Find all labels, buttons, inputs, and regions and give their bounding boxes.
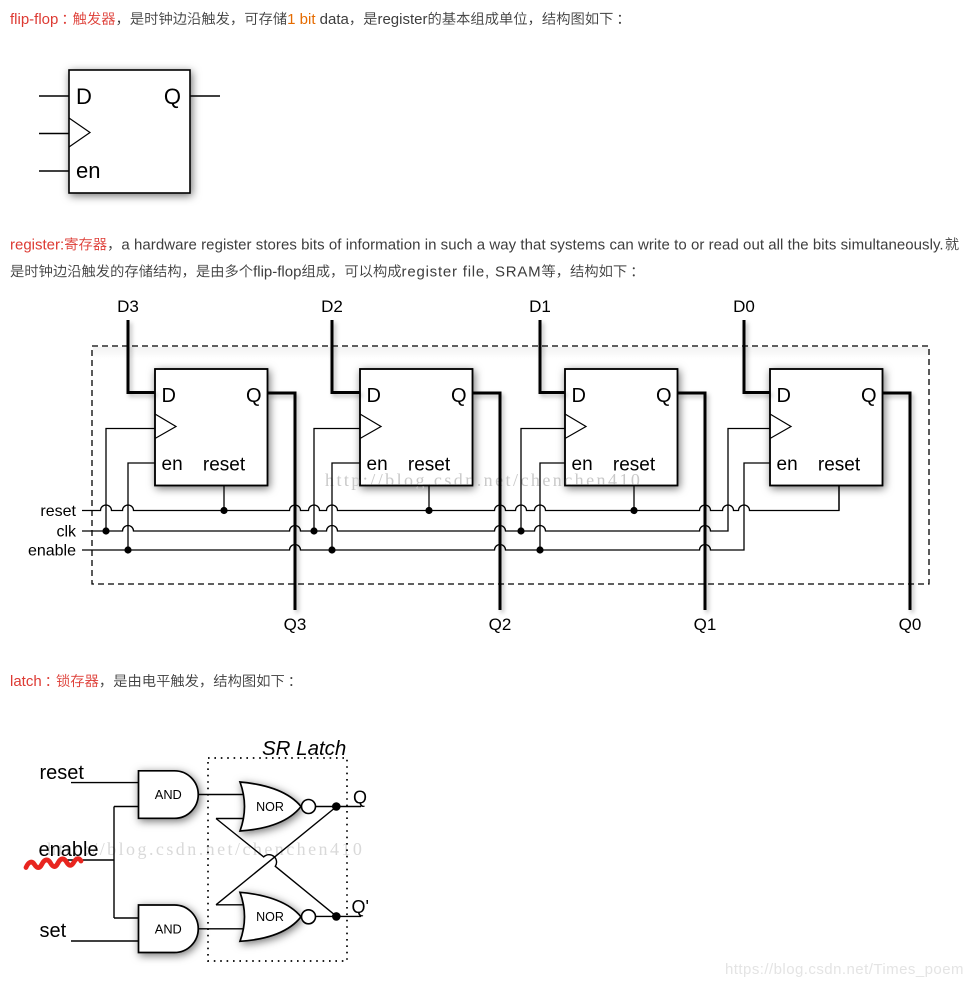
svg-text:D: D <box>572 385 586 407</box>
svg-text:register:: register: <box>10 236 64 253</box>
svg-text:Q3: Q3 <box>284 615 307 634</box>
svg-text:Q: Q <box>353 788 367 808</box>
svg-text:Q0: Q0 <box>899 615 922 634</box>
svg-text:flip-flop: flip-flop <box>10 11 58 28</box>
svg-text:reset: reset <box>613 455 656 476</box>
svg-text:en: en <box>367 454 388 475</box>
svg-text:1 bit: 1 bit <box>287 11 316 28</box>
svg-text:Q: Q <box>861 385 877 407</box>
svg-text:set: set <box>40 920 67 942</box>
svg-text:flip-flop: flip-flop <box>253 263 301 280</box>
svg-text:en: en <box>572 454 593 475</box>
svg-text:reset: reset <box>40 762 85 784</box>
svg-text:clk: clk <box>56 524 77 541</box>
svg-text:reset: reset <box>818 455 861 476</box>
svg-text:latch: latch <box>10 673 42 690</box>
svg-text:D: D <box>367 385 381 407</box>
svg-text:Q1: Q1 <box>694 615 717 634</box>
svg-text:a hardware register stores bit: a hardware register stores bits of infor… <box>121 236 943 253</box>
svg-text:https://blog.csdn.net/Times_po: https://blog.csdn.net/Times_poem <box>725 961 964 978</box>
svg-text:Q: Q <box>656 385 672 407</box>
svg-text:Q2: Q2 <box>489 615 512 634</box>
svg-text:NOR: NOR <box>256 910 284 924</box>
svg-text:register: register <box>377 11 427 28</box>
svg-text:D: D <box>777 385 791 407</box>
svg-text:data: data <box>316 11 350 28</box>
svg-text:D1: D1 <box>529 297 551 316</box>
svg-text:Q': Q' <box>352 897 369 917</box>
svg-text:Q: Q <box>246 385 262 407</box>
svg-text:AND: AND <box>155 921 182 936</box>
svg-text:reset: reset <box>203 455 246 476</box>
svg-text:en: en <box>162 454 183 475</box>
svg-text:D: D <box>162 385 176 407</box>
svg-text:enable: enable <box>28 543 76 560</box>
svg-text:reset: reset <box>408 455 451 476</box>
svg-text:AND: AND <box>155 787 182 802</box>
svg-text:D: D <box>76 84 92 109</box>
svg-text:reset: reset <box>40 503 76 520</box>
svg-text:D0: D0 <box>733 297 755 316</box>
svg-text:Q: Q <box>451 385 467 407</box>
svg-text:D2: D2 <box>321 297 343 316</box>
svg-text:Q: Q <box>164 84 181 109</box>
svg-text:D3: D3 <box>117 297 139 316</box>
svg-text:en: en <box>777 454 798 475</box>
svg-text:SR Latch: SR Latch <box>262 737 346 760</box>
svg-text:en: en <box>76 158 100 183</box>
svg-text:NOR: NOR <box>256 800 284 814</box>
svg-text:register file, SRAM: register file, SRAM <box>402 263 542 280</box>
